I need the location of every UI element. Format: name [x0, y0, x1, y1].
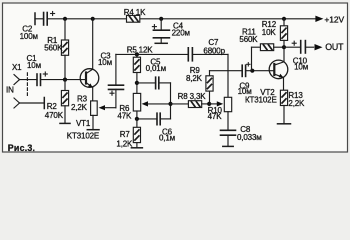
transistor VT2	[269, 60, 288, 90]
wire OUT row	[284, 46, 301, 48]
wire R9 row to VT2 base	[210, 70, 243, 72]
label R7 1,2K	[116, 130, 133, 149]
connector X1	[14, 73, 27, 108]
caption Рис.3.	[8, 143, 35, 153]
wire C5/C6 right vertical	[170, 83, 172, 119]
label R1 560K	[44, 36, 63, 53]
potentiometer R6	[133, 93, 170, 119]
svg-text:100м: 100м	[20, 32, 38, 41]
resistor R2	[61, 80, 68, 124]
label R11 560K	[239, 28, 258, 44]
label IN	[6, 85, 14, 94]
label C9 10м	[238, 81, 252, 96]
node A junction	[135, 81, 139, 85]
capacitor C1	[37, 72, 47, 85]
capacitor C8	[221, 130, 236, 146]
label VT2	[260, 88, 275, 97]
label R6 47K	[117, 104, 132, 121]
wire top rail right	[140, 18, 317, 20]
label R2 470K	[45, 102, 64, 120]
wire input to C1	[20, 79, 38, 81]
svg-text:КТ3102E: КТ3102E	[245, 95, 277, 104]
resistor R9	[206, 71, 213, 104]
svg-text:0,033м: 0,033м	[237, 133, 262, 142]
node top-left junction	[63, 17, 67, 21]
label C10 10м	[293, 57, 308, 72]
wire X1 ground pin	[20, 102, 45, 104]
svg-text:220м: 220м	[172, 28, 190, 37]
svg-text:6800p: 6800p	[203, 46, 225, 55]
label C2 100м	[20, 24, 38, 41]
label R12 10K	[262, 20, 277, 37]
node VT1 collector junction	[91, 17, 95, 21]
resistor R4	[127, 15, 140, 22]
OUT arrow	[315, 44, 323, 50]
svg-text:0,01м: 0,01м	[146, 64, 166, 73]
ground T-bar R2	[60, 122, 70, 124]
svg-text:470K: 470K	[45, 111, 64, 120]
border frame	[3, 3, 348, 152]
label КТ3102E	[245, 95, 277, 104]
node R8/R9/R10 junction	[207, 102, 211, 106]
svg-text:47K: 47K	[117, 111, 132, 120]
label R3 2,2K	[71, 94, 88, 112]
capacitor C2	[35, 12, 55, 26]
resistor R11	[252, 44, 285, 71]
+12V arrow	[315, 14, 344, 24]
node C4 junction	[159, 17, 163, 21]
label C5 0,01м	[146, 57, 166, 72]
capacitor C6	[137, 113, 171, 125]
label R4 1K	[124, 8, 146, 17]
svg-text:8,2K: 8,2K	[186, 74, 203, 83]
resistor R7	[133, 119, 140, 148]
resistor R12	[280, 19, 287, 62]
node R12 junction	[282, 17, 286, 21]
node VT2 collector junction	[282, 45, 286, 49]
capacitor C4	[152, 19, 169, 44]
svg-text:R2: R2	[47, 102, 58, 111]
svg-text:2,2K: 2,2K	[71, 103, 88, 112]
wire C1 to VT1 base	[41, 79, 87, 81]
svg-text:KT3102E: KT3102E	[67, 132, 99, 141]
svg-text:10м: 10м	[27, 61, 41, 70]
node R5 top junction	[135, 52, 139, 56]
svg-text:IN: IN	[6, 85, 14, 94]
svg-text:2,2K: 2,2K	[288, 99, 305, 108]
wire C7 down to R10	[227, 54, 229, 97]
svg-text:10K: 10K	[262, 28, 277, 37]
capacitor C5	[137, 77, 171, 89]
label KT3102E	[67, 132, 99, 141]
label C4 220м	[172, 22, 190, 38]
wire top rail left	[47, 18, 126, 20]
label VT1	[76, 119, 91, 128]
capacitor C3	[109, 54, 124, 95]
svg-text:0,1м: 0,1м	[159, 133, 175, 142]
svg-text:R8 3,3K: R8 3,3K	[178, 92, 207, 101]
svg-text:OUT: OUT	[325, 42, 344, 52]
node VT2 base junction	[250, 69, 254, 73]
svg-text:560K: 560K	[239, 35, 258, 44]
svg-text:R3: R3	[77, 94, 88, 103]
svg-text:Рис.3.: Рис.3.	[8, 143, 35, 153]
resistor R1	[61, 19, 68, 80]
label R8 3,3K	[178, 92, 207, 101]
label C3 10м	[98, 52, 112, 67]
svg-text:1,2K: 1,2K	[116, 139, 133, 148]
label R10 47K	[208, 106, 223, 121]
capacitor C9	[242, 63, 274, 77]
ground T-bar VT1 emitter	[87, 129, 99, 131]
potentiometer R10	[224, 97, 231, 130]
label X1	[12, 63, 22, 72]
ground T-bar input	[43, 98, 45, 109]
label R5 12K	[127, 46, 154, 55]
capacitor C7	[188, 48, 228, 61]
label C8 0,033м	[237, 125, 262, 142]
label C6 0,1м	[159, 127, 175, 142]
svg-text:47K: 47K	[208, 112, 223, 121]
resistor R13	[280, 90, 287, 124]
svg-text:VT1: VT1	[76, 119, 91, 128]
ground T-bar C8	[223, 145, 233, 147]
label R13 2,2K	[288, 91, 305, 108]
resistor R5	[133, 54, 140, 93]
label R9 8,2K	[186, 66, 203, 83]
svg-text:560K: 560K	[44, 43, 63, 52]
svg-text:10м: 10м	[294, 63, 308, 72]
svg-text:R5 12K: R5 12K	[127, 46, 154, 55]
ground T-bar C4	[155, 42, 167, 44]
label C7 6800p	[203, 38, 225, 55]
svg-text:R4 1K: R4 1K	[124, 8, 146, 17]
node R7 junction	[135, 117, 139, 121]
ground T-bar R13	[278, 123, 291, 125]
svg-text:+12V: +12V	[324, 14, 344, 24]
svg-text:X1: X1	[12, 63, 22, 72]
capacitor C10	[292, 41, 313, 53]
svg-text:10м: 10м	[98, 58, 112, 67]
resistor R8	[188, 101, 209, 108]
transistor VT1	[80, 19, 99, 101]
label C1 10м	[27, 54, 41, 70]
R10 wiper arrow	[210, 101, 224, 106]
wire R8 row	[171, 103, 189, 105]
svg-text:R7: R7	[120, 130, 131, 139]
trimmer R3	[91, 89, 116, 129]
label OUT	[325, 42, 344, 52]
ground T-bar R7	[131, 147, 142, 149]
node R6 wiper junction	[168, 102, 172, 106]
node VT1 base junction	[63, 78, 67, 82]
wire tone input row	[116, 53, 188, 55]
